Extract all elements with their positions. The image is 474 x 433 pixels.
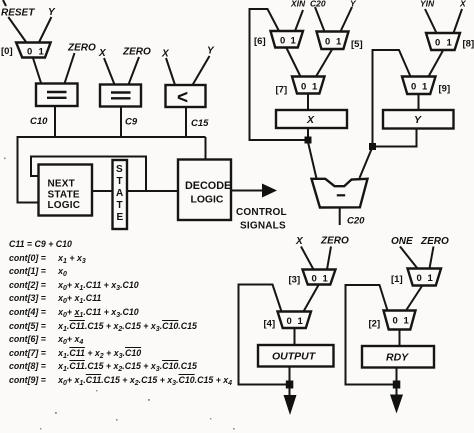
svg-text:Y: Y bbox=[414, 114, 422, 126]
svg-text:[9]: [9] bbox=[439, 84, 451, 95]
equations block bbox=[9, 238, 232, 388]
svg-text:0: 0 bbox=[411, 82, 416, 93]
decode logic box bbox=[178, 160, 231, 221]
svg-text:A: A bbox=[116, 188, 123, 199]
svg-text:C20: C20 bbox=[310, 0, 326, 9]
svg-text:OUTPUT: OUTPUT bbox=[272, 351, 317, 363]
X feedback wire to mux6 bbox=[250, 9, 309, 140]
control signals arrowhead bbox=[262, 184, 277, 198]
svg-text:ZERO: ZERO bbox=[122, 47, 151, 58]
svg-text:C9: C9 bbox=[125, 117, 138, 128]
OUTPUT arrowhead bbox=[284, 395, 297, 415]
RDY register box bbox=[362, 346, 434, 368]
wire register X to node bbox=[307, 128, 309, 143]
svg-text:0: 0 bbox=[325, 37, 330, 48]
svg-text:1: 1 bbox=[312, 82, 318, 93]
OUTPUT register box bbox=[258, 345, 334, 367]
wire RESET to mux0 bbox=[8, 17, 26, 43]
svg-text:1: 1 bbox=[428, 273, 434, 284]
svg-text:1: 1 bbox=[323, 274, 329, 285]
status bus wire bbox=[18, 137, 206, 203]
wire mux1 to mux2 bbox=[406, 286, 422, 311]
svg-text:C10: C10 bbox=[30, 116, 48, 127]
comparator < (C15) bbox=[166, 85, 206, 107]
OUTPUT feedback wire to mux4 bbox=[239, 285, 290, 385]
svg-text:NEXT: NEXT bbox=[48, 179, 75, 190]
svg-text:LOGIC: LOGIC bbox=[48, 200, 81, 211]
svg-text:ZERO: ZERO bbox=[420, 236, 449, 247]
= symbol C9 bbox=[111, 93, 131, 99]
svg-text:1: 1 bbox=[422, 82, 428, 93]
svg-text:[7]: [7] bbox=[276, 85, 288, 96]
mux [0] bbox=[16, 43, 51, 58]
wire mux9 to register Y bbox=[418, 94, 420, 110]
wire C10 to bus bbox=[54, 106, 56, 137]
= symbol C10 bbox=[47, 92, 67, 98]
wire ZERO to mux1 bbox=[430, 247, 434, 269]
mux [2] bbox=[384, 311, 416, 330]
wire mux8 to mux9 bbox=[429, 51, 444, 77]
svg-text:1: 1 bbox=[39, 47, 45, 58]
wire XIN to mux6 bbox=[295, 10, 303, 31]
mux [9] bbox=[402, 77, 436, 95]
wire node X to subtractor bbox=[308, 142, 317, 179]
wire C9 to bus bbox=[120, 107, 122, 138]
svg-text:1: 1 bbox=[447, 38, 453, 49]
svg-text:STATE: STATE bbox=[48, 190, 80, 201]
svg-text:YIN: YIN bbox=[420, 0, 435, 9]
wire X to comparator C15 bbox=[166, 58, 175, 85]
svg-text:Y: Y bbox=[207, 46, 215, 57]
wire bus to decode logic bbox=[205, 137, 207, 160]
svg-text:X: X bbox=[295, 236, 304, 247]
svg-text:XIN: XIN bbox=[290, 0, 306, 9]
svg-text:0: 0 bbox=[27, 47, 32, 58]
node OUTPUT junction bbox=[286, 381, 294, 389]
svg-text:ZERO: ZERO bbox=[67, 43, 96, 54]
svg-text:E: E bbox=[117, 212, 124, 223]
svg-text:1: 1 bbox=[336, 37, 342, 48]
svg-text:X: X bbox=[459, 0, 467, 9]
wire node Y to subtractor bbox=[360, 148, 373, 178]
svg-text:T: T bbox=[117, 176, 123, 187]
svg-text:C20: C20 bbox=[347, 216, 365, 227]
svg-text:<: < bbox=[177, 88, 188, 109]
svg-text:[5]: [5] bbox=[351, 39, 363, 50]
wire ZERO to comparator C9 bbox=[129, 57, 140, 85]
wire OUTPUT down bbox=[289, 367, 291, 397]
mux [1] bbox=[408, 269, 442, 286]
svg-text:RDY: RDY bbox=[386, 352, 409, 364]
wire Y to mux0 bbox=[39, 17, 52, 43]
svg-text:[8]: [8] bbox=[463, 39, 474, 50]
svg-text:S: S bbox=[116, 164, 123, 175]
minus symbol bbox=[337, 194, 345, 196]
svg-text:[6]: [6] bbox=[254, 36, 266, 47]
svg-text:X: X bbox=[98, 48, 107, 59]
svg-text:0: 0 bbox=[312, 274, 317, 285]
wire X to mux8 bbox=[454, 9, 463, 33]
scan speckles bbox=[4, 158, 235, 430]
wire YIN to mux8 bbox=[425, 9, 437, 33]
wire mux7 to register X bbox=[307, 94, 309, 110]
svg-text:C15: C15 bbox=[191, 118, 209, 129]
svg-text:[4]: [4] bbox=[264, 319, 276, 330]
svg-text:1: 1 bbox=[404, 316, 410, 327]
wire ZERO to mux3 bbox=[327, 247, 331, 270]
wire mux6 to mux7 bbox=[287, 48, 301, 77]
mux [5] bbox=[317, 32, 349, 50]
wire Y to comparator C15 bbox=[193, 56, 210, 85]
wire register Y to node bbox=[373, 129, 417, 147]
svg-text:1: 1 bbox=[298, 316, 304, 327]
svg-text:ONE: ONE bbox=[391, 236, 413, 247]
RDY arrowhead bbox=[390, 395, 403, 414]
wire Y to mux5 bbox=[341, 7, 353, 32]
wire mux5 to mux7 bbox=[316, 50, 332, 77]
comparator = (C10) bbox=[36, 84, 78, 107]
next state logic box bbox=[39, 165, 93, 216]
svg-text:[2]: [2] bbox=[369, 319, 381, 330]
wire RDY down bbox=[396, 368, 398, 396]
svg-text:0: 0 bbox=[417, 273, 422, 284]
svg-text:T: T bbox=[117, 200, 123, 211]
svg-text:Y: Y bbox=[350, 0, 357, 9]
wire NSL to STATE bbox=[92, 190, 113, 192]
svg-text:LOGIC: LOGIC bbox=[191, 195, 224, 206]
wire mux3 to mux4 bbox=[304, 285, 319, 312]
svg-text:X: X bbox=[161, 49, 170, 60]
comparator = (C9) bbox=[100, 85, 141, 107]
wire X to mux3 bbox=[301, 247, 314, 270]
RDY feedback wire to mux2 bbox=[346, 285, 397, 385]
svg-text:Y: Y bbox=[48, 7, 56, 18]
node RDY junction bbox=[393, 381, 401, 389]
wire mux2 to RDY bbox=[399, 330, 401, 347]
state register box bbox=[113, 160, 128, 229]
svg-text:[3]: [3] bbox=[289, 275, 301, 286]
svg-text:ZERO: ZERO bbox=[320, 236, 349, 247]
Y feedback wire to mux9 bbox=[373, 50, 411, 147]
mux [8] bbox=[426, 33, 460, 50]
svg-text:0: 0 bbox=[287, 316, 292, 327]
wire mux0 to comparator C10 bbox=[33, 58, 41, 84]
register X box bbox=[276, 110, 347, 128]
stray mark top-left bbox=[3, 0, 6, 6]
svg-text:SIGNALS: SIGNALS bbox=[240, 221, 286, 232]
svg-text:0: 0 bbox=[393, 316, 398, 327]
wire mux4 to OUTPUT bbox=[294, 328, 296, 345]
mux [6] bbox=[271, 31, 304, 48]
node Y junction bbox=[369, 143, 376, 150]
mux [7] bbox=[292, 77, 325, 94]
register Y box bbox=[383, 110, 454, 129]
svg-text:1: 1 bbox=[291, 36, 297, 47]
svg-text:0: 0 bbox=[280, 36, 285, 47]
wire STATE to decode logic bbox=[127, 190, 178, 192]
svg-text:CONTROL: CONTROL bbox=[236, 207, 287, 218]
wire ZERO to comparator C10 bbox=[65, 53, 75, 84]
svg-text:[0]: [0] bbox=[1, 46, 13, 57]
mux [3] bbox=[303, 270, 336, 285]
svg-text:X: X bbox=[306, 114, 315, 126]
wire ONE to mux1 bbox=[400, 247, 418, 269]
subtractor ALU bbox=[312, 179, 368, 208]
node X junction bbox=[305, 137, 312, 144]
svg-text:0: 0 bbox=[435, 38, 440, 49]
svg-text:RESET: RESET bbox=[1, 8, 35, 19]
state feedback wire bbox=[31, 157, 146, 192]
wire C15 to bus bbox=[185, 107, 187, 137]
svg-text:DECODE: DECODE bbox=[185, 180, 231, 192]
svg-text:[1]: [1] bbox=[391, 274, 403, 285]
control signals wire bbox=[231, 190, 263, 192]
wire X to comparator C9 bbox=[104, 58, 115, 85]
svg-text:0: 0 bbox=[301, 82, 306, 93]
wire subtractor C20 out bbox=[339, 208, 341, 226]
mux [4] bbox=[278, 312, 312, 329]
wire C20 to mux5 bbox=[315, 7, 325, 32]
